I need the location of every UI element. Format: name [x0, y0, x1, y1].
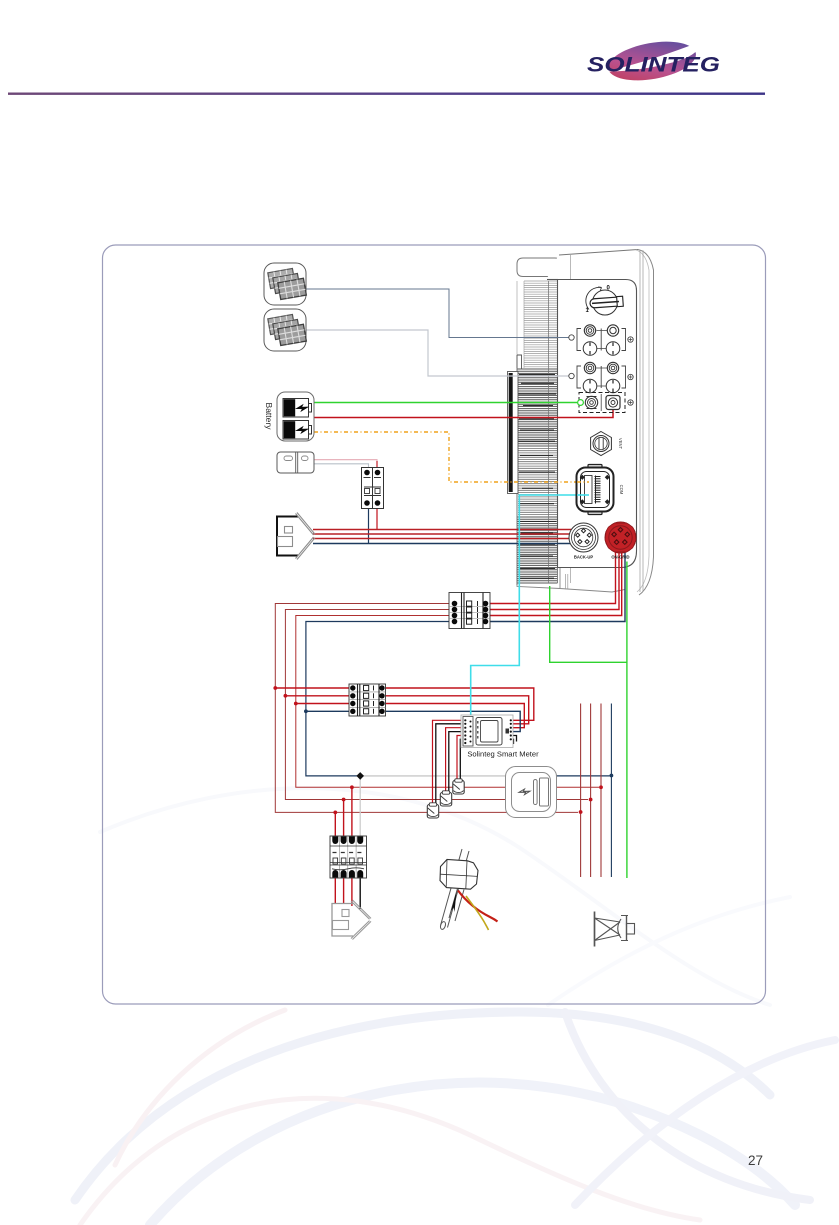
wire battery switch N (gray): [314, 464, 369, 468]
vent valve: [591, 432, 623, 456]
svg-text:ON-GRID: ON-GRID: [611, 555, 629, 560]
front panel: [558, 280, 637, 568]
load breaker (4-pole vertical): [330, 836, 367, 878]
junction dots: [273, 686, 602, 814]
Solinteg logo: [587, 36, 720, 87]
grid tower: [595, 912, 635, 947]
svg-text:SOLINTEG: SOLINTEG: [587, 53, 720, 77]
wire fuse to backup N: [368, 508, 370, 544]
wire PV1 to inverter: [306, 289, 572, 338]
wire battery comm (orange dashed): [314, 432, 586, 482]
wire grid L3: [490, 550, 622, 616]
PV array PV1: [264, 263, 306, 305]
wire breaker2 to meter row3: [386, 704, 525, 728]
wire PV2 to inverter: [306, 330, 572, 376]
PV array PV2: [264, 309, 306, 351]
wire backup L2: [313, 533, 572, 535]
wire drops to load breaker: [334, 812, 336, 836]
CT L1: [427, 803, 438, 818]
load: [506, 767, 557, 818]
wire grid L1 (on-grid port loop): [490, 550, 616, 604]
svg-text:BACK-UP: BACK-UP: [574, 555, 594, 560]
wire PE green from chassis: [550, 586, 627, 662]
wire grid riser L2: [590, 704, 592, 878]
wire CT3 pair: [457, 736, 465, 781]
wire CT1 pair: [433, 720, 466, 804]
heatsink fins: [524, 281, 557, 367]
CT L3: [453, 779, 464, 794]
AC breaker QF1 (on-grid, 4-pole horizontal): [449, 593, 490, 629]
COM port: [577, 465, 625, 515]
battery: [277, 392, 314, 441]
PV2 input connectors: [569, 362, 633, 393]
wire battery switch L (pink): [314, 460, 377, 468]
PV1 input connectors: [569, 325, 633, 356]
svg-text:COM: COM: [619, 485, 624, 495]
Solinteg Smart Meter: [461, 715, 513, 748]
svg-text:Battery: Battery: [264, 403, 274, 431]
wire ends into COM port: [577, 481, 589, 483]
wire neutral to load (gray): [360, 775, 506, 777]
battery disconnect switch: [277, 452, 314, 473]
wire CT2 pair: [446, 728, 465, 792]
wire breaker2 to meter row4 (N): [386, 711, 521, 731]
wire grid riser L1: [580, 704, 582, 878]
CT on grid cable: [440, 849, 498, 930]
ON-GRID port: [605, 522, 636, 560]
AC breaker QF2 (grid side, 4-pole horizontal): [349, 684, 386, 716]
header rule: [8, 93, 765, 95]
node diamond: [356, 772, 364, 780]
DC switch: [586, 286, 624, 316]
wall bracket: [508, 372, 519, 494]
svg-text:Solinteg Smart Meter: Solinteg Smart Meter: [467, 750, 539, 759]
inverter body: [508, 250, 654, 596]
wire battery - (red): [314, 408, 613, 418]
wire breaker2 to meter row1: [386, 688, 534, 720]
diagram frame: [103, 245, 766, 1004]
wire meter black hooks: [510, 736, 517, 742]
svg-text:VENT: VENT: [618, 438, 623, 450]
wire grid L2: [490, 550, 619, 610]
wire battery + (green): [314, 402, 577, 404]
wire breaker1 to breaker2 stubs: [275, 687, 349, 689]
wire COM cyan: [471, 495, 586, 715]
fuse F1 2-pole: [362, 468, 384, 509]
BACK-UP port: [569, 523, 598, 560]
CT L2: [440, 791, 451, 806]
wire backup L3: [313, 538, 574, 540]
wire backup L1: [313, 529, 572, 531]
wire PE green riser: [626, 562, 628, 879]
wire fuse to backup L: [376, 508, 378, 530]
wire grid riser N: [610, 704, 612, 878]
svg-text:27: 27: [748, 1153, 763, 1168]
backup loads house: [277, 513, 315, 560]
wire load breaker to house: [334, 878, 336, 904]
wire grid N: [490, 550, 625, 622]
wire breaker2 to meter row2: [386, 696, 529, 724]
wire backup N: [313, 543, 576, 545]
wire grid riser L3: [600, 704, 602, 878]
battery input connectors: [578, 393, 634, 413]
load house: [332, 900, 371, 940]
